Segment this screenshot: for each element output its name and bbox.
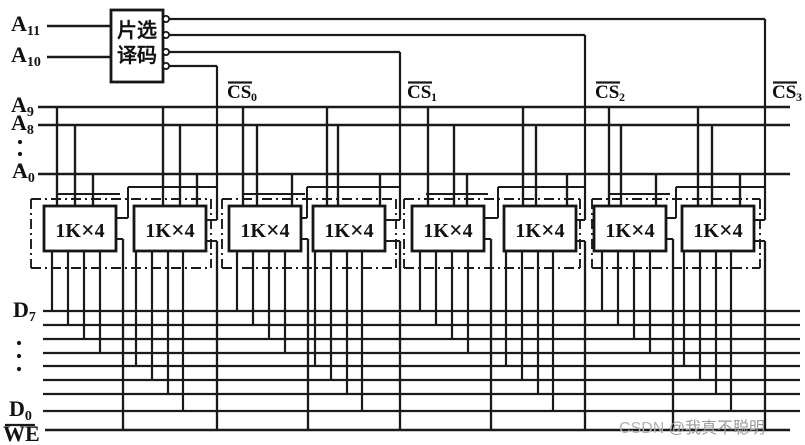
svg-text:1K×4: 1K×4 (240, 218, 289, 244)
svg-text:CSDN @我真不聪明: CSDN @我真不聪明 (619, 419, 765, 437)
svg-text:1K×4: 1K×4 (693, 218, 742, 244)
svg-text:1K×4: 1K×4 (423, 218, 472, 244)
svg-text:CS: CS (595, 82, 619, 103)
svg-text:1K×4: 1K×4 (324, 218, 373, 244)
svg-text:片选: 片选 (117, 19, 157, 42)
svg-text:CS: CS (772, 82, 796, 103)
svg-text:0: 0 (251, 90, 257, 104)
svg-text:1K×4: 1K×4 (515, 218, 564, 244)
svg-text:3: 3 (796, 90, 802, 104)
svg-text:D7: D7 (13, 297, 36, 325)
svg-text:1K×4: 1K×4 (55, 218, 104, 244)
svg-text:1K×4: 1K×4 (605, 218, 654, 244)
svg-text:CS: CS (227, 82, 251, 103)
svg-text:1K×4: 1K×4 (145, 218, 194, 244)
svg-text:2: 2 (619, 90, 625, 104)
svg-text:CS: CS (407, 82, 431, 103)
svg-text:D0: D0 (9, 396, 32, 424)
svg-text:A10: A10 (11, 42, 41, 70)
svg-text:A11: A11 (11, 11, 40, 39)
svg-text:译码: 译码 (117, 44, 157, 67)
svg-text:A0: A0 (12, 158, 35, 186)
svg-text:1: 1 (431, 90, 437, 104)
